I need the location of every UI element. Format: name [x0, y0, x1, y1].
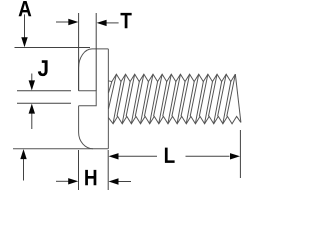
threaded shank: bottom thread crests [108, 116, 241, 123]
dimension T: left extension line (runs into head left face) [78, 13, 80, 91]
dimension H: right arrow [118, 181, 132, 183]
screw tip end line [235, 74, 241, 122]
dimension H: left extension line [78, 150, 80, 190]
dimension J: down arrow [31, 74, 33, 82]
dimension J: lower extension line [17, 102, 71, 104]
dimension T: right extension line (runs into slot inner face) [95, 13, 97, 91]
screw head outline with slot [79, 49, 109, 149]
dimension A: upper extension line [15, 47, 91, 49]
dimension H: left arrow [56, 180, 69, 182]
dimension J: label J [38, 60, 48, 76]
dimension L: left arrow at head seat [118, 155, 158, 157]
dimension L: right arrow [186, 155, 230, 157]
dimension T: right arrow [106, 22, 119, 24]
dimension A: up arrow [23, 159, 25, 181]
dimension J: up arrow [31, 113, 33, 130]
dimension L: label L [165, 148, 175, 163]
head bottom edge merged with A lower extension line [13, 148, 108, 150]
dimension H: label H [85, 170, 96, 185]
threaded shank: thread flank lines [108, 74, 235, 124]
dimension T: left arrow [56, 21, 70, 23]
dimension T: label T [121, 13, 132, 28]
dimension A: label A [19, 1, 32, 16]
dimension H: right extension line [107, 150, 109, 190]
dimension L: right extension line [239, 130, 241, 178]
dimension J: upper extension line [17, 90, 71, 92]
dimension A: down arrow [24, 14, 26, 39]
threaded shank: top thread crests [108, 74, 235, 81]
